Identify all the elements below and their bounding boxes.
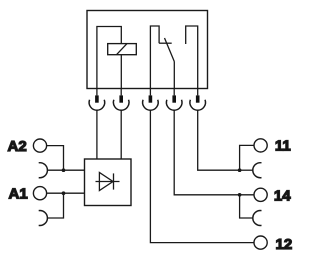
switch blade — [165, 38, 175, 62]
NC contact bar — [159, 42, 172, 44]
wire A2 circle to junction — [47, 146, 64, 171]
wire 14 junction down to hook — [240, 195, 254, 218]
coil K1 — [108, 44, 137, 55]
wire pin5 down to terminal 11 junction — [198, 110, 240, 170]
test socket 14 hook — [253, 211, 262, 226]
wire NO loop pin5 to NO stub — [186, 26, 198, 89]
test socket A1 hook — [39, 211, 48, 226]
wire coil top loop pin1 to coil — [97, 27, 121, 89]
wire junction to 11 hook — [240, 169, 254, 171]
wire pin3 down to terminal 12 — [150, 110, 254, 242]
pin 5 — [190, 89, 206, 111]
pin 4 — [166, 89, 182, 111]
junction dot A2 — [62, 168, 66, 172]
pin 3 — [143, 89, 159, 111]
junction dot 14 — [238, 193, 242, 197]
diode V1 — [96, 173, 120, 191]
coil diagonal — [117, 44, 128, 55]
terminal 11 circle — [254, 139, 267, 152]
wire A1 junction down to hook — [47, 193, 64, 218]
wire contact loop pin3 to NC contact — [150, 26, 159, 89]
relay housing K1 — [87, 11, 208, 89]
wire pin2 to diode box — [120, 110, 122, 159]
pin 2 — [113, 89, 129, 111]
wire A1 circle to box — [47, 192, 85, 194]
wire pin1 to diode box — [96, 110, 98, 159]
terminal 12 circle — [254, 236, 267, 249]
wire A2 hook to junction — [47, 169, 64, 171]
wire pin4 down to terminal 14 — [174, 110, 254, 195]
terminal 14 circle — [254, 188, 267, 201]
svg-text:A2: A2 — [8, 138, 27, 155]
svg-text:12: 12 — [276, 236, 293, 253]
diode box — [85, 159, 132, 206]
junction dot A1 — [62, 191, 66, 195]
wire blade to pin4 — [173, 62, 175, 89]
wire A2 junction to box — [64, 169, 85, 171]
junction dot 11 — [238, 168, 242, 172]
wire coil bottom to pin2 — [120, 55, 122, 89]
svg-text:11: 11 — [275, 138, 291, 155]
test socket 11 hook — [253, 163, 262, 178]
terminal A2 circle — [33, 139, 46, 152]
test socket A2 hook — [39, 163, 48, 178]
svg-text:14: 14 — [274, 188, 291, 205]
pin 1 — [89, 89, 105, 111]
wire 11 circle to junction — [240, 145, 254, 170]
svg-text:A1: A1 — [9, 185, 28, 202]
terminal A1 circle — [33, 187, 46, 200]
